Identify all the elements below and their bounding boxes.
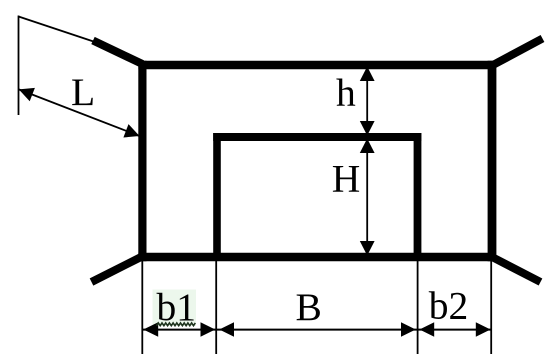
corner cut top-left [93,41,142,65]
svg-text:H: H [332,157,361,201]
b2 arrowhead right [476,322,491,337]
highlight patch behind b1 [153,290,197,327]
h arrowhead up [360,67,375,82]
H dimension line [366,140,368,255]
svg-text:b2: b2 [429,284,469,328]
outer profile right line [488,61,497,261]
extension line below right wall [490,261,492,354]
svg-text:B: B [296,285,322,329]
L arrowhead lower-right [123,124,139,137]
H arrowhead up [360,139,375,154]
h dimension line [366,68,368,135]
L extension line vertical [18,16,20,116]
b1 arrowhead right [201,322,216,337]
corner cut top-right [492,39,543,66]
extension line below inner right wall [417,261,419,354]
inner opening right line [414,133,422,257]
extension line below inner left wall [215,261,217,354]
svg-text:L: L [71,70,95,114]
outer profile left line [138,61,146,261]
L arrowhead upper-left [19,88,35,101]
outer profile top line [138,61,496,70]
H arrowhead down [360,241,375,256]
L dimension line [19,89,140,136]
h arrowhead down [360,121,375,136]
corner cut bottom-right [492,257,541,282]
grammar squiggle under b1 [157,323,196,326]
b2 arrowhead left [420,322,435,337]
B arrowhead right [401,322,416,337]
bottom dimension line [142,329,491,331]
inner opening left line [213,133,221,257]
svg-text:h: h [336,71,356,115]
b1 arrowhead left [143,322,158,337]
extension line below left wall [141,261,143,354]
outer profile bottom line [138,253,496,262]
inner opening top line [213,133,421,141]
B arrowhead left [219,322,234,337]
corner cut bottom-left [92,257,143,283]
L leader line [19,17,94,42]
